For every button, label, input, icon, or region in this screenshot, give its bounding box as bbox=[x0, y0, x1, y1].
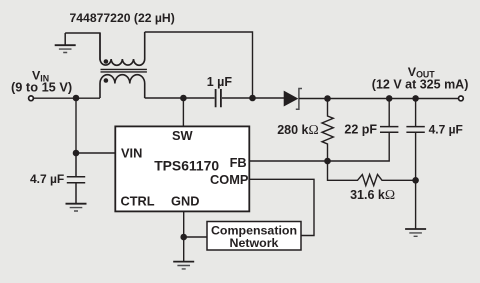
ground GND3 (output) bbox=[405, 229, 426, 236]
transformer T1 phase dot top bbox=[104, 59, 109, 64]
wire SW rail bbox=[145, 97, 215, 99]
node GND junction bbox=[180, 234, 187, 241]
capacitor C4 4.7uF input bbox=[67, 153, 85, 204]
wire SW pin bbox=[182, 98, 184, 126]
transformer T1 primary winding bbox=[100, 32, 145, 65]
node FB junction bbox=[324, 158, 331, 165]
svg-text:SW: SW bbox=[172, 128, 194, 143]
svg-text:22 pF: 22 pF bbox=[344, 122, 377, 136]
svg-text:280 kΩ: 280 kΩ bbox=[277, 122, 319, 137]
wire FB to C2 bbox=[328, 132, 390, 161]
wire VIN pin bbox=[76, 152, 115, 154]
transformer T1 phase dot bottom bbox=[104, 78, 109, 83]
diode D1 schottky bar bbox=[296, 89, 302, 110]
wire C2 top bbox=[388, 98, 390, 126]
wire GND to compensation box bbox=[184, 236, 207, 238]
IC U1 TPS61170 box bbox=[115, 126, 249, 211]
svg-text:TPS61170: TPS61170 bbox=[154, 158, 219, 174]
wire C1 to diode bbox=[222, 97, 284, 99]
node C2 top junction bbox=[386, 95, 393, 102]
node C3 top junction bbox=[412, 95, 419, 102]
terminal VOUT bbox=[459, 96, 464, 101]
node VIN junction bbox=[73, 95, 80, 102]
svg-text:1 µF: 1 µF bbox=[207, 75, 233, 89]
wire output rail bbox=[299, 98, 458, 100]
svg-text:GND: GND bbox=[171, 193, 199, 208]
wire COMP bbox=[249, 179, 314, 235]
svg-text:Network: Network bbox=[230, 236, 279, 250]
svg-text:COMP: COMP bbox=[210, 172, 249, 187]
wire VIN rail bbox=[34, 97, 100, 99]
transformer T1 secondary winding bbox=[100, 75, 145, 98]
capacitor C1 1uF bbox=[216, 89, 221, 107]
node top-rail junction bbox=[249, 95, 256, 102]
ground GND1 (top left) bbox=[55, 33, 76, 53]
transformer T1 core bbox=[101, 69, 147, 72]
node diode cathode junction bbox=[324, 95, 331, 102]
capacitor C2 22pF bbox=[380, 127, 398, 133]
svg-text:4.7 µF: 4.7 µF bbox=[429, 122, 463, 136]
svg-text:4.7 µF: 4.7 µF bbox=[30, 172, 64, 186]
wire top-left rail bbox=[65, 33, 100, 60]
wire GND pin bbox=[183, 211, 185, 261]
ground GND4 (IC) bbox=[173, 262, 194, 269]
compensation network box bbox=[207, 222, 301, 251]
svg-text:CTRL: CTRL bbox=[121, 193, 155, 208]
svg-text:(9 to 15 V): (9 to 15 V) bbox=[11, 80, 72, 95]
wire VIN drop bbox=[75, 98, 77, 153]
svg-text:744877220 (22 µH): 744877220 (22 µH) bbox=[70, 11, 175, 25]
svg-text:VIN: VIN bbox=[121, 146, 142, 161]
capacitor C3 4.7uF output bbox=[406, 127, 424, 133]
wire FB bbox=[249, 160, 327, 162]
terminal VIN bbox=[29, 96, 34, 101]
resistor R1 280k bbox=[322, 99, 333, 162]
ground GND2 (input cap) bbox=[66, 204, 87, 211]
svg-text:(12 V at 325 mA): (12 V at 325 mA) bbox=[372, 78, 469, 92]
diode D1 bbox=[284, 92, 297, 106]
resistor R2 31.6k bbox=[328, 161, 416, 186]
svg-text:31.6 kΩ: 31.6 kΩ bbox=[350, 187, 395, 202]
wire C3 top bbox=[415, 98, 417, 126]
node SW junction bbox=[180, 95, 187, 102]
svg-text:FB: FB bbox=[230, 155, 247, 170]
wire C3 bottom bbox=[415, 132, 417, 229]
wire top-right rail bbox=[145, 32, 253, 98]
node R2 output junction bbox=[412, 177, 419, 184]
node VIN pin junction bbox=[73, 150, 80, 157]
